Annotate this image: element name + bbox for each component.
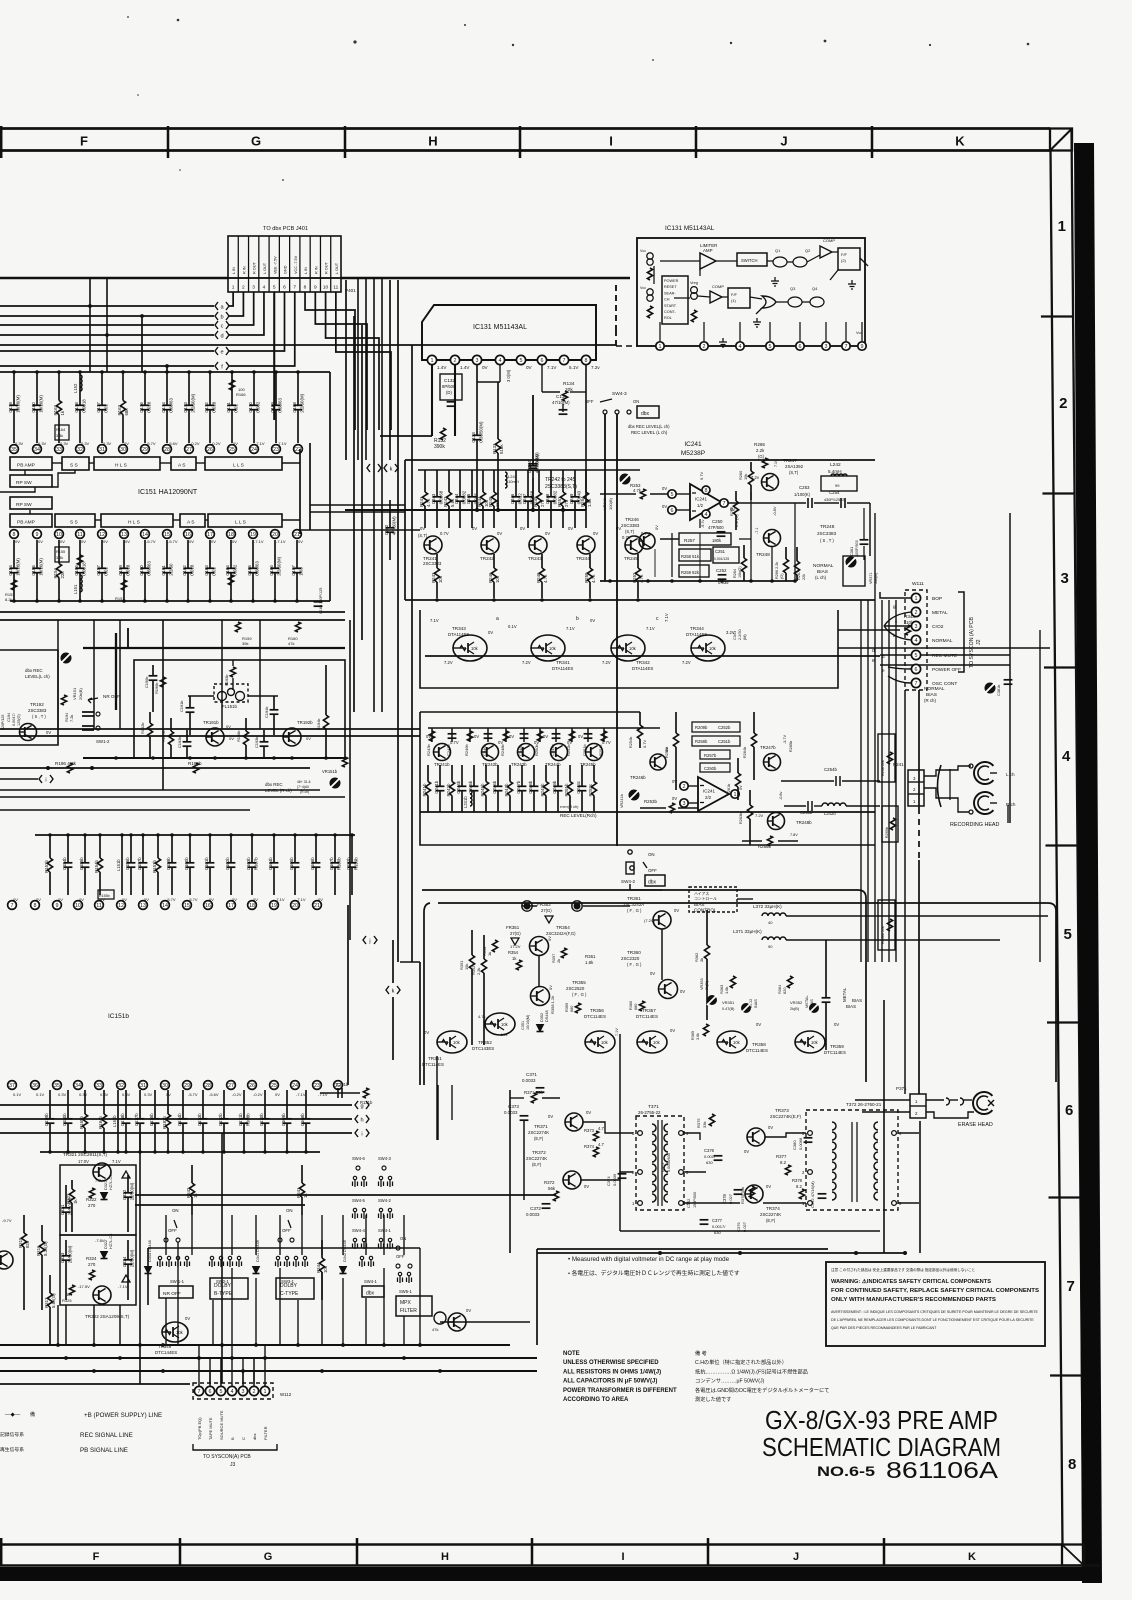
svg-text:PB AMP: PB AMP bbox=[17, 463, 35, 469]
capacitor C321 bbox=[65, 1185, 67, 1208]
svg-text:12: 12 bbox=[118, 903, 124, 909]
svg-text:METAL: METAL bbox=[932, 610, 948, 616]
node e bbox=[215, 347, 218, 355]
resistor R250b bbox=[539, 728, 541, 742]
wire vertical x354 long bbox=[353, 316, 355, 712]
wire bbox=[383, 1268, 385, 1345]
T372 secondary winding bbox=[874, 1162, 878, 1170]
svg-text:7.1V: 7.1V bbox=[547, 365, 557, 370]
svg-text:IC131 M51143AL: IC131 M51143AL bbox=[665, 225, 715, 232]
svg-text:4.7/50(M): 4.7/50(M) bbox=[391, 516, 396, 535]
svg-text:2SC3383: 2SC3383 bbox=[423, 561, 442, 566]
resistor R317 bbox=[49, 1275, 51, 1293]
svg-text:5: 5 bbox=[220, 1389, 223, 1395]
svg-text:8: 8 bbox=[34, 903, 37, 909]
bus lines under IC151 bbox=[0, 611, 345, 613]
svg-text:-5.7V: -5.7V bbox=[188, 897, 198, 902]
diode bbox=[101, 1252, 108, 1259]
right border inner rule bbox=[1051, 150, 1063, 1546]
svg-text:C351: C351 bbox=[521, 1021, 525, 1030]
svg-text:C374: C374 bbox=[606, 1176, 611, 1186]
svg-text:R258 51k: R258 51k bbox=[681, 554, 700, 559]
svg-text:C168: C168 bbox=[292, 402, 297, 413]
connector W111 dashed outline bbox=[905, 590, 927, 690]
SW4 bank contacts row1 bbox=[356, 1166, 360, 1170]
svg-text:0V: 0V bbox=[472, 526, 477, 531]
wire heavy dbx rail bbox=[83, 647, 345, 649]
transistor bbox=[437, 1031, 467, 1053]
resistor R157 68k bbox=[121, 580, 126, 590]
svg-text:記録信号系: 記録信号系 bbox=[0, 1431, 24, 1438]
node d bbox=[215, 331, 218, 339]
svg-text:4.7k: 4.7k bbox=[478, 1014, 486, 1019]
capacitor bbox=[263, 730, 265, 742]
svg-text:0V: 0V bbox=[232, 539, 237, 544]
wire bbox=[279, 1215, 281, 1255]
svg-text:C.Hの単位（特に指定された部品以外）: C.Hの単位（特に指定された部品以外） bbox=[695, 1358, 787, 1366]
wire vertical x163 bbox=[162, 620, 164, 790]
svg-text:• Measured with digital: • Measured with digital voltmeter in DC … bbox=[568, 1256, 730, 1263]
transistor bbox=[482, 744, 499, 761]
svg-text:C246: C246 bbox=[510, 493, 515, 504]
wire bbox=[321, 1272, 323, 1345]
svg-text:630: 630 bbox=[706, 1160, 713, 1165]
svg-text:-5.6V: -5.6V bbox=[209, 1092, 219, 1097]
svg-text:R316: R316 bbox=[36, 1245, 41, 1256]
svg-text:0V: 0V bbox=[547, 936, 552, 941]
transistor TR242 bbox=[481, 536, 499, 554]
svg-text:TR344: TR344 bbox=[690, 626, 704, 631]
svg-text:Vreg: Vreg bbox=[690, 281, 698, 285]
capacitor bbox=[152, 665, 154, 676]
svg-text:-0.2V: -0.2V bbox=[232, 1092, 242, 1097]
L-ch inner bottom bus bbox=[600, 580, 795, 582]
svg-text:b: b bbox=[576, 616, 579, 622]
svg-text:L L S: L L S bbox=[235, 520, 246, 526]
svg-text:0V: 0V bbox=[545, 531, 550, 536]
svg-text:4.7k: 4.7k bbox=[543, 574, 548, 583]
bus i bbox=[0, 1132, 352, 1134]
node i bbox=[355, 1129, 358, 1137]
transistor bbox=[764, 754, 781, 771]
svg-text:0.3V: 0.3V bbox=[81, 441, 90, 446]
svg-text:2: 2 bbox=[915, 610, 918, 616]
svg-text:C162: C162 bbox=[182, 565, 187, 576]
svg-text:SW4-6: SW4-6 bbox=[352, 1156, 365, 1161]
svg-text:BIAS: BIAS bbox=[753, 999, 758, 1008]
wire bbox=[684, 1202, 740, 1204]
svg-text:COMP: COMP bbox=[712, 284, 724, 289]
svg-text:Q4: Q4 bbox=[812, 286, 818, 291]
svg-text:10/16(M): 10/16(M) bbox=[38, 395, 43, 413]
svg-text:4: 4 bbox=[231, 1389, 234, 1395]
svg-text:C173: C173 bbox=[183, 402, 188, 413]
wire vertical x398 long bbox=[397, 460, 399, 962]
svg-text:0.68/63: 0.68/63 bbox=[168, 397, 173, 412]
svg-text:Q3: Q3 bbox=[790, 286, 796, 291]
wire bbox=[383, 1215, 385, 1255]
svg-text:22k: 22k bbox=[802, 574, 806, 580]
svg-text:C249b: C249b bbox=[552, 780, 557, 793]
svg-text:R259 82k: R259 82k bbox=[681, 570, 700, 575]
wire bbox=[345, 280, 347, 460]
svg-text:C177: C177 bbox=[96, 402, 101, 413]
svg-text:0.7V: 0.7V bbox=[642, 739, 647, 748]
transistor bbox=[93, 1163, 111, 1181]
capacitor C173b bbox=[202, 1090, 204, 1119]
svg-text:C155b: C155b bbox=[79, 857, 84, 870]
wire dbx row j-line bbox=[400, 961, 420, 963]
svg-text:7.1V: 7.1V bbox=[774, 459, 778, 467]
wires P241 to heads bbox=[924, 766, 971, 776]
svg-text:9: 9 bbox=[861, 344, 864, 350]
svg-text:C193b: C193b bbox=[254, 737, 259, 748]
wire into P371 pin1 bbox=[855, 1099, 910, 1101]
svg-text:11: 11 bbox=[96, 903, 102, 909]
svg-text:-0.2V: -0.2V bbox=[211, 441, 221, 446]
svg-text:HZ7L-C3: HZ7L-C3 bbox=[109, 1234, 113, 1249]
wire vertical x362 bbox=[361, 325, 363, 640]
svg-text:47k: 47k bbox=[432, 1327, 438, 1332]
svg-text:R373: R373 bbox=[584, 1128, 595, 1133]
resistor R159 39k bbox=[235, 622, 240, 632]
svg-text:TR341: TR341 bbox=[556, 660, 570, 665]
svg-text:0V: 0V bbox=[125, 539, 130, 544]
T371 primary winding bbox=[652, 1194, 656, 1202]
svg-text:10: 10 bbox=[323, 285, 329, 291]
svg-text:10k: 10k bbox=[176, 1330, 184, 1335]
wire bbox=[229, 292, 254, 325]
IC131 pin 5 bbox=[516, 355, 525, 364]
svg-text:C-TYPE: C-TYPE bbox=[280, 1291, 299, 1297]
coil L151b bbox=[121, 835, 123, 895]
resistor R154 bbox=[58, 540, 60, 564]
svg-text:3: 3 bbox=[915, 624, 918, 630]
svg-text:0.68/63: 0.68/63 bbox=[146, 560, 151, 575]
T372 primary winding bbox=[832, 1162, 836, 1170]
svg-text:C324: C324 bbox=[122, 1256, 127, 1267]
transistor bbox=[20, 724, 37, 741]
svg-text:0V: 0V bbox=[420, 526, 425, 531]
R-ch top inner bus bbox=[428, 727, 660, 729]
svg-text:(G): (G) bbox=[758, 454, 765, 459]
function box SS bbox=[62, 457, 89, 470]
svg-text:1: 1 bbox=[734, 792, 737, 798]
svg-text:2k: 2k bbox=[556, 959, 561, 963]
svg-text:TR361: TR361 bbox=[627, 896, 641, 901]
IC151 pin row lower (pins 8-21) bbox=[10, 530, 19, 539]
svg-text:2: 2 bbox=[683, 784, 686, 790]
svg-text:C170: C170 bbox=[248, 402, 253, 413]
node f bbox=[215, 362, 218, 370]
svg-text:-5.7V: -5.7V bbox=[146, 539, 156, 544]
svg-text:OSC CONT: OSC CONT bbox=[932, 681, 957, 687]
svg-text:10k: 10k bbox=[811, 1040, 819, 1045]
svg-text:0V: 0V bbox=[498, 740, 503, 745]
svg-text:TR247: TR247 bbox=[783, 458, 797, 463]
svg-text:0V: 0V bbox=[298, 539, 303, 544]
svg-text:C254b: C254b bbox=[824, 767, 837, 772]
resistor R323 bbox=[71, 1180, 73, 1189]
svg-text:0V: 0V bbox=[15, 539, 20, 544]
svg-text:A S: A S bbox=[178, 463, 185, 469]
wire J401 encode pins down-right bbox=[326, 292, 379, 430]
svg-text:R372: R372 bbox=[544, 1180, 555, 1185]
svg-text:0V: 0V bbox=[672, 779, 677, 784]
svg-text:125(G): 125(G) bbox=[17, 713, 21, 726]
svg-text:dbx REC LEVEL(L ch): dbx REC LEVEL(L ch) bbox=[628, 424, 670, 429]
ground marks bbox=[771, 277, 779, 286]
capacitor C160b bbox=[189, 835, 191, 863]
function box LLS lower bbox=[208, 514, 282, 527]
svg-text:2SC2274K: 2SC2274K bbox=[760, 1212, 781, 1217]
svg-text:10: 10 bbox=[56, 532, 62, 538]
bus h bbox=[0, 1118, 352, 1120]
svg-text:8: 8 bbox=[705, 488, 708, 494]
svg-text:C160b: C160b bbox=[184, 857, 189, 870]
T372 secondary winding bbox=[874, 1122, 878, 1130]
svg-text:11: 11 bbox=[77, 532, 83, 538]
svg-text:TO SYSCON (A) PCB: TO SYSCON (A) PCB bbox=[969, 617, 975, 668]
svg-text:R354: R354 bbox=[508, 950, 519, 955]
resistor R242 bbox=[448, 470, 450, 492]
svg-text:4.7: 4.7 bbox=[598, 1126, 604, 1131]
node j bbox=[367, 464, 370, 472]
svg-text:C163b: C163b bbox=[246, 857, 251, 870]
svg-text:TR242: TR242 bbox=[480, 556, 494, 561]
svg-text:W111: W111 bbox=[912, 581, 924, 587]
transistor bbox=[485, 1013, 515, 1035]
svg-text:24: 24 bbox=[251, 447, 257, 453]
function box AS lower bbox=[180, 514, 205, 527]
svg-text:16: 16 bbox=[205, 903, 211, 909]
T371 secondary winding bbox=[664, 1194, 668, 1202]
R-ch outer box bbox=[420, 712, 875, 845]
resistor VR wiper bbox=[342, 757, 347, 767]
svg-text:47P/500: 47P/500 bbox=[708, 525, 724, 530]
svg-text:32: 32 bbox=[77, 447, 83, 453]
filter FL151b dashed box bbox=[214, 684, 248, 702]
function box HLS bbox=[94, 457, 160, 470]
svg-text:-0.2V: -0.2V bbox=[190, 441, 200, 446]
svg-text:L372 33μH(K): L372 33μH(K) bbox=[753, 904, 782, 909]
svg-text:0V: 0V bbox=[578, 734, 583, 739]
svg-text:L151: L151 bbox=[73, 584, 78, 594]
svg-text:C248b: C248b bbox=[528, 780, 533, 793]
dbx box mid bbox=[645, 875, 665, 886]
warning triangle bbox=[122, 1171, 130, 1178]
svg-text:FOR CONTINUED SAFETY, REPLACE: FOR CONTINUED SAFETY, REPLACE SAFETY CRI… bbox=[831, 1288, 1039, 1294]
coil bbox=[505, 472, 507, 488]
svg-text:2: 2 bbox=[703, 344, 706, 350]
capacitor C163 bbox=[209, 540, 211, 568]
svg-text:0.001/125: 0.001/125 bbox=[714, 557, 729, 561]
wire vertical x90 bbox=[89, 278, 91, 372]
svg-text:10k: 10k bbox=[495, 575, 500, 583]
F/F (1) box bbox=[728, 288, 750, 308]
svg-text:dbx: dbx bbox=[252, 1434, 257, 1440]
capacitor C183b bbox=[351, 835, 353, 863]
svg-text:C154: C154 bbox=[8, 565, 13, 576]
wire J401 encode pins down-right bbox=[315, 292, 367, 430]
svg-text:C154b: C154b bbox=[62, 857, 67, 870]
svg-text:TR355: TR355 bbox=[572, 980, 586, 985]
resistor R252 bbox=[637, 554, 639, 568]
svg-text:R157b: R157b bbox=[152, 860, 157, 873]
capacitor C324 bbox=[127, 1240, 129, 1260]
svg-text:0.018: 0.018 bbox=[146, 401, 151, 413]
capacitor C247b bbox=[521, 765, 523, 786]
wire bbox=[684, 1133, 700, 1140]
transistor bbox=[747, 1128, 765, 1146]
IC151b top bus bbox=[35, 834, 355, 836]
svg-text:7.2V: 7.2V bbox=[602, 660, 611, 665]
resistor bbox=[753, 712, 755, 733]
svg-text:SW4-5: SW4-5 bbox=[352, 1198, 365, 1203]
svg-text:0V: 0V bbox=[672, 796, 677, 801]
svg-text:22k: 22k bbox=[60, 571, 65, 579]
svg-text:0.3V: 0.3V bbox=[15, 441, 24, 446]
svg-text:REC SIGNAL LINE: REC SIGNAL LINE bbox=[80, 1432, 133, 1439]
bottom black bar bbox=[0, 1567, 1100, 1581]
wire bbox=[24, 470, 26, 475]
bus line y1371 bbox=[0, 1370, 537, 1372]
svg-text:9: 9 bbox=[36, 532, 39, 538]
svg-text:C243: C243 bbox=[431, 493, 436, 504]
svg-text:Q1: Q1 bbox=[775, 248, 781, 253]
W112 bracket bbox=[193, 1444, 277, 1450]
svg-text:34: 34 bbox=[75, 1083, 81, 1089]
svg-text:6: 6 bbox=[283, 285, 286, 291]
svg-text:C323: C323 bbox=[60, 1252, 65, 1263]
svg-text:0V: 0V bbox=[526, 365, 533, 370]
wire IC131 pin1 down bbox=[431, 365, 433, 436]
svg-text:MPX: MPX bbox=[400, 1300, 412, 1306]
function box RP SW lower bbox=[10, 497, 52, 509]
svg-text:8: 8 bbox=[585, 358, 588, 364]
svg-text:QUE PAR DES PIECES RECOMMANDEE: QUE PAR DES PIECES RECOMMANDEES PAR LE F… bbox=[831, 1326, 937, 1330]
svg-text:R154b: R154b bbox=[94, 860, 99, 873]
transistor bbox=[585, 1031, 615, 1053]
svg-text:H L S: H L S bbox=[115, 463, 127, 469]
svg-text:0V: 0V bbox=[534, 740, 539, 745]
svg-text:-7.1V: -7.1V bbox=[118, 1284, 128, 1289]
svg-text:L IN: L IN bbox=[304, 267, 308, 274]
wire J401 pin5 down long bbox=[273, 292, 275, 420]
svg-text:8P/500: 8P/500 bbox=[442, 384, 456, 389]
svg-text:-3.7V: -3.7V bbox=[783, 734, 787, 744]
resistor R247b bbox=[509, 765, 511, 782]
wire bbox=[365, 1298, 367, 1345]
svg-text:0V: 0V bbox=[275, 1092, 280, 1097]
svg-text:1: 1 bbox=[264, 1389, 267, 1395]
resistor bbox=[785, 547, 787, 559]
svg-text:SW4-3: SW4-3 bbox=[612, 391, 627, 397]
svg-text:16: 16 bbox=[185, 532, 191, 538]
svg-text:C166: C166 bbox=[269, 565, 274, 576]
recording head R ch symbol bbox=[974, 792, 993, 814]
capacitor C162 bbox=[187, 540, 189, 568]
W111 pin 4 NORMAL bbox=[911, 635, 920, 644]
svg-text:47/10(M): 47/10(M) bbox=[552, 400, 570, 405]
svg-text:35: 35 bbox=[54, 1083, 60, 1089]
svg-text:C247b: C247b bbox=[516, 780, 521, 793]
svg-text:99: 99 bbox=[835, 483, 840, 488]
svg-text:C131b: C131b bbox=[336, 1082, 349, 1087]
right margin ticks bbox=[1041, 315, 1073, 317]
wire long mid verticals y962-1250 bbox=[419, 962, 421, 1085]
transistor bbox=[611, 635, 645, 661]
T371 primary winding bbox=[652, 1184, 656, 1192]
svg-text:20: 20 bbox=[292, 903, 298, 909]
capacitor C159b bbox=[171, 835, 173, 863]
T371 secondary winding bbox=[664, 1184, 668, 1192]
wire middle long horizontals y1345-1371 extensions bbox=[440, 1321, 530, 1323]
svg-text:C159: C159 bbox=[118, 565, 123, 576]
capacitor C183 150P/125 bbox=[314, 601, 323, 603]
svg-text:REC MUTE: REC MUTE bbox=[932, 653, 957, 659]
capacitor C169 bbox=[275, 372, 277, 405]
svg-text:C380: C380 bbox=[792, 1140, 797, 1150]
svg-text:68k: 68k bbox=[124, 408, 129, 416]
T371 secondary winding bbox=[664, 1144, 668, 1152]
wire network verticals bbox=[660, 538, 679, 540]
svg-text:R267: R267 bbox=[797, 571, 801, 580]
resistor bbox=[325, 665, 327, 715]
svg-text:-17.5V: -17.5V bbox=[78, 1284, 90, 1289]
transistor TR245 bbox=[625, 536, 643, 554]
svg-text:DTC114ES: DTC114ES bbox=[584, 1014, 606, 1019]
svg-text:TOp(PB EQ): TOp(PB EQ) bbox=[197, 1417, 202, 1440]
wire bbox=[177, 1242, 179, 1345]
wires into W112 bbox=[198, 1384, 200, 1386]
diode bbox=[253, 1267, 260, 1274]
svg-text:TR248: TR248 bbox=[820, 524, 835, 530]
wire dbx feed horizontal bbox=[522, 905, 537, 907]
BIAS CONTROL box bbox=[689, 887, 737, 912]
svg-text:7.8V: 7.8V bbox=[790, 833, 798, 837]
svg-text:430P/125(G): 430P/125(G) bbox=[824, 498, 846, 502]
svg-text:-7.1V: -7.1V bbox=[276, 539, 286, 544]
svg-text:VR371: VR371 bbox=[869, 572, 873, 584]
resistor R316 bbox=[41, 1225, 43, 1241]
wire bbox=[165, 1298, 167, 1345]
svg-text:CrO2: CrO2 bbox=[932, 624, 944, 630]
svg-text:4: 4 bbox=[739, 344, 742, 350]
svg-text:VR241: VR241 bbox=[602, 497, 607, 510]
wire bbox=[397, 280, 399, 460]
wire bbox=[420, 711, 640, 713]
svg-text:R248: R248 bbox=[536, 572, 541, 583]
capacitor bbox=[186, 730, 188, 742]
wire bbox=[209, 1358, 211, 1384]
diode bbox=[101, 1193, 108, 1200]
svg-text:0V: 0V bbox=[497, 531, 502, 536]
svg-text:150P/500: 150P/500 bbox=[693, 1192, 697, 1208]
capacitor C322 bbox=[127, 1175, 129, 1193]
capacitor C170 bbox=[253, 372, 255, 405]
capacitor C174 bbox=[166, 372, 168, 405]
svg-text:VR353: VR353 bbox=[700, 978, 704, 990]
IC131 pin 7 bbox=[559, 355, 568, 364]
svg-text:0V: 0V bbox=[318, 897, 323, 902]
svg-text:C321: C321 bbox=[60, 1204, 65, 1215]
svg-text:0.0033: 0.0033 bbox=[522, 1078, 536, 1083]
resistor R248b bbox=[505, 728, 507, 742]
svg-text:ハイアス: ハイアス bbox=[694, 891, 709, 896]
svg-text:1.4V: 1.4V bbox=[460, 365, 470, 370]
resistor R155 3.3k bbox=[55, 547, 69, 562]
